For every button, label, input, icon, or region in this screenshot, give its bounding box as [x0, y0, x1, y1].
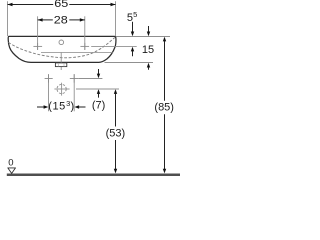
- svg-text:28: 28: [54, 15, 68, 27]
- svg-text:15: 15: [142, 44, 154, 56]
- svg-text:(7): (7): [92, 100, 105, 112]
- svg-text:(85): (85): [154, 101, 174, 113]
- svg-text:): ): [71, 101, 75, 113]
- svg-text:(53): (53): [106, 128, 126, 140]
- svg-text:65: 65: [54, 0, 68, 10]
- svg-text:0: 0: [8, 158, 13, 169]
- svg-text:(15: (15: [48, 101, 65, 113]
- svg-text:5: 5: [133, 10, 137, 19]
- svg-text:5: 5: [127, 12, 133, 24]
